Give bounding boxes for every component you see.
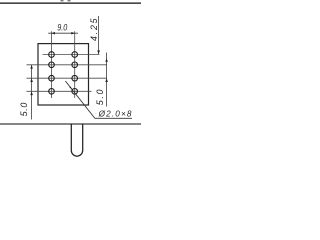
dimension 4.25 down arrow <box>97 50 100 54</box>
dimension 9.0 right arrow <box>71 32 74 35</box>
row centerline row1 <box>43 54 100 56</box>
left dim arrow at row3 <box>30 78 33 82</box>
leader line to hole note <box>65 81 95 118</box>
hole r4c2 <box>72 89 78 95</box>
dimension 5.0 right line <box>106 53 108 107</box>
left dim arrow at row2 <box>30 65 33 69</box>
hole r3c1 <box>49 75 55 81</box>
leader arrowhead at hole <box>69 86 72 90</box>
svg-text:5.0: 5.0 <box>19 102 29 116</box>
row centerline row2 <box>27 64 107 66</box>
dimension 9.0 line <box>48 32 78 34</box>
svg-text:9.0: 9.0 <box>57 23 67 33</box>
dimension 4.25 line <box>98 16 100 54</box>
top border line <box>0 2 141 4</box>
pin side view (U profile) <box>71 124 82 156</box>
plate outline <box>38 44 89 105</box>
leader underline <box>95 117 132 119</box>
left dim arrow at row4 <box>30 92 33 96</box>
right dim arrow at row1 <box>105 58 108 61</box>
hole r1c2 <box>72 52 78 58</box>
svg-text:Ø2.0×8: Ø2.0×8 <box>98 109 133 118</box>
hole r4c1 <box>49 89 55 95</box>
svg-text:4.25: 4.25 <box>89 17 99 41</box>
hole r3c2 <box>72 75 78 81</box>
column centerline col1 <box>51 31 53 98</box>
right dim arrow at row3 <box>105 78 108 82</box>
divider border line <box>0 123 141 125</box>
cut-off text specks above top border <box>61 0 64 1</box>
hole r2c1 <box>49 62 55 68</box>
row centerline row3 <box>27 77 107 79</box>
hole r2c2 <box>72 62 78 68</box>
svg-text:5.0: 5.0 <box>95 88 105 105</box>
column centerline col2 <box>74 31 76 98</box>
row centerline row4 <box>27 90 92 92</box>
hole r1c1 <box>49 52 55 58</box>
dimension 5.0 left line <box>31 65 33 120</box>
dimension 9.0 left arrow <box>52 32 55 35</box>
